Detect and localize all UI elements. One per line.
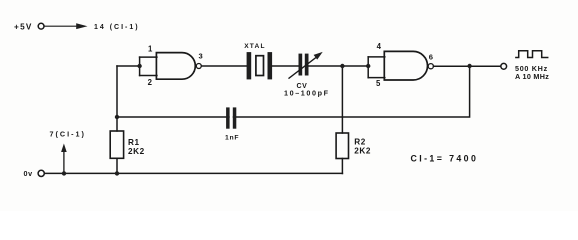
svg-text:XTAL: XTAL [244, 43, 266, 50]
svg-text:4: 4 [377, 42, 382, 51]
svg-text:2: 2 [148, 78, 153, 87]
svg-text:3: 3 [199, 51, 204, 60]
svg-text:10–100pF: 10–100pF [284, 88, 330, 97]
svg-text:1nF: 1nF [225, 135, 239, 142]
svg-text:+5V: +5V [14, 23, 33, 32]
svg-text:6: 6 [429, 52, 434, 61]
svg-text:0v: 0v [24, 169, 33, 178]
svg-text:2K2: 2K2 [354, 146, 371, 155]
svg-text:CI-1= 7400: CI-1= 7400 [411, 154, 479, 164]
svg-text:R2: R2 [354, 138, 366, 147]
svg-text:14 (CI-1): 14 (CI-1) [94, 24, 140, 31]
svg-text:2K2: 2K2 [128, 147, 145, 156]
svg-text:R1: R1 [128, 138, 140, 147]
svg-text:5: 5 [376, 79, 381, 88]
svg-text:A 10 MHz: A 10 MHz [515, 72, 549, 81]
svg-text:1: 1 [148, 45, 153, 54]
svg-text:7(CI-1): 7(CI-1) [50, 129, 86, 138]
